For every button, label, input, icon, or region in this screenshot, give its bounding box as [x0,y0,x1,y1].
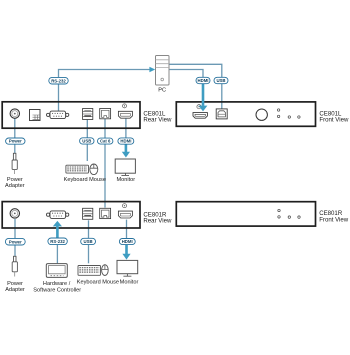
svg-text:Adapter: Adapter [5,183,25,189]
svg-text:Front View: Front View [319,117,349,124]
svg-text:Power: Power [9,139,22,144]
svg-text:RS-232: RS-232 [51,78,66,83]
svg-text:HDMI: HDMI [198,78,209,83]
svg-text:RS-232: RS-232 [50,239,65,244]
svg-text:Power: Power [9,239,22,244]
svg-text:Adapter: Adapter [5,287,25,293]
svg-text:Rear View: Rear View [143,117,172,124]
svg-text:Rear View: Rear View [143,218,172,225]
svg-text:Monitor: Monitor [116,177,135,183]
svg-text:Keyboard Mouse: Keyboard Mouse [77,279,119,285]
svg-text:Cat 6: Cat 6 [100,139,111,144]
svg-text:USB: USB [82,139,91,144]
svg-text:USB: USB [216,78,225,83]
svg-text:PC: PC [158,88,166,94]
svg-text:HDMI: HDMI [120,139,131,144]
svg-text:USB: USB [84,239,93,244]
svg-text:Keyboard Mouse: Keyboard Mouse [64,177,106,183]
svg-text:HDMI: HDMI [122,239,133,244]
svg-text:Software Controller: Software Controller [33,288,81,294]
svg-text:Front View: Front View [319,217,349,224]
svg-text:Monitor: Monitor [120,279,139,285]
svg-text:Hardware /: Hardware / [43,281,71,287]
